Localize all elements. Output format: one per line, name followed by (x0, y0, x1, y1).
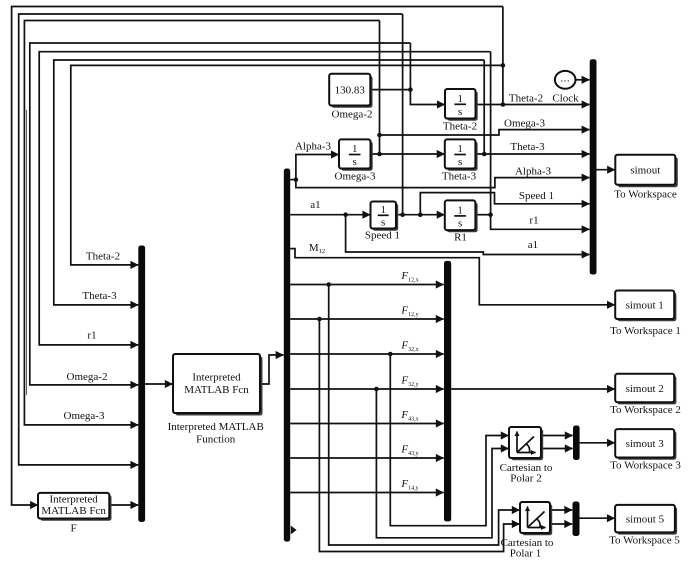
wire constant 130.83 output to junction (370, 89, 410, 91)
block simout 1 To Workspace 1 (617, 293, 676, 322)
junction F32y branch (374, 387, 379, 392)
svg-text:M12: M12 (309, 242, 325, 255)
block simout 5 To Workspace 5 (617, 507, 677, 534)
wire riser from Omega-3 output junction (379, 21, 381, 155)
svg-text:MATLAB Fcn: MATLAB Fcn (41, 505, 106, 517)
wire mux1 output to simout (597, 169, 616, 171)
svg-text:To Workspace 3: To Workspace 3 (610, 460, 681, 472)
svg-text:a1: a1 (310, 199, 320, 211)
junction Speed 1 output feedback (400, 212, 405, 217)
svg-text:To Workspace 1: To Workspace 1 (610, 325, 681, 337)
svg-text:Interpreted MATLAB: Interpreted MATLAB (168, 421, 264, 433)
integrator R1 (1/s) (447, 203, 478, 233)
clock (555, 71, 576, 89)
integrator Speed 1 (1/s) (373, 204, 399, 231)
wire riser from Speed 1 output junction (402, 14, 404, 215)
svg-text:Interpreted: Interpreted (192, 372, 241, 384)
wire feedback Omega-2 to left mux (30, 43, 411, 385)
block simout 2 To Workspace 2 (617, 376, 676, 404)
wire Interpreted MATLAB Fcn output to demux (260, 355, 284, 384)
svg-text:F14,y: F14,y (400, 478, 418, 492)
block Interpreted MATLAB Fcn (main) (176, 357, 263, 416)
svg-text:1: 1 (457, 93, 463, 105)
junction F12y branch (317, 317, 322, 322)
wire demux M12 output to simout 1 (290, 249, 615, 305)
svg-text:Polar 2: Polar 2 (510, 473, 541, 485)
junction F32x branch (388, 352, 393, 357)
junction Theta-2 feedback split (501, 63, 506, 68)
svg-text:Polar 1: Polar 1 (510, 548, 541, 560)
svg-text:F43,y: F43,y (400, 444, 418, 458)
svg-text:Theta-3: Theta-3 (510, 141, 545, 153)
svg-text:To Workspace 2: To Workspace 2 (610, 404, 681, 416)
integrator Omega-3 (1/s) (341, 142, 373, 171)
junction Omega-3 output (377, 152, 382, 157)
junction r1 output (488, 212, 493, 217)
mux3 (after Cartesian to Polar 2) (573, 426, 580, 461)
block simout 3 To Workspace 3 (617, 431, 676, 459)
svg-text:simout 2: simout 2 (626, 383, 664, 395)
svg-text:Theta-3: Theta-3 (82, 290, 117, 302)
junction Theta-3 output (482, 152, 487, 157)
wire riser from r1 output junction (490, 52, 492, 215)
wire left mux output to Interpreted MATLAB Fcn (145, 383, 173, 385)
wire scan ghost near Omega-3 feedback (26, 110, 28, 395)
wire feedback Theta-2 to left mux (71, 65, 503, 265)
svg-text:simout 3: simout 3 (626, 438, 665, 450)
junction F12x branch (326, 282, 331, 287)
wire F12y branch to Cartesian to Polar 1 input y (319, 319, 519, 552)
svg-text:130.83: 130.83 (335, 85, 366, 97)
svg-text:1: 1 (380, 204, 386, 216)
wire Omega-3 integrator output to Theta-3 integrator (371, 153, 445, 155)
block Cartesian to Polar 2 (511, 429, 543, 460)
svg-text:Omega-3: Omega-3 (335, 171, 376, 183)
svg-text:a1: a1 (528, 239, 538, 251)
junction a1 branch (343, 212, 348, 217)
svg-text:F: F (71, 523, 77, 535)
wire demux a1 output to Speed 1 integrator (290, 214, 370, 216)
svg-text:1: 1 (457, 143, 463, 155)
wire feedback Theta-2 to F block (outer loop) (12, 7, 503, 506)
svg-text:Clock: Clock (552, 93, 579, 105)
wire Theta-2 integrator output to mux1 (476, 104, 590, 106)
junction Omega-3 branch (377, 133, 382, 138)
wire Cartesian to Polar 1 output 1 to mux4 (550, 509, 572, 511)
svg-text:R1: R1 (454, 232, 467, 244)
wire clock to mux1 (576, 79, 590, 81)
wire Alpha-3 up into Omega-3 integrator (296, 155, 339, 180)
wire Speed 1 integrator output to R1 integrator (396, 214, 445, 216)
wire mux3 output to simout 3 (580, 442, 615, 444)
wire feedback r1 to left mux (39, 52, 490, 345)
svg-text:F32,x: F32,x (400, 340, 418, 354)
wire demux F32x output to mux2 (290, 353, 444, 355)
wire mux4 output to simout 5 (580, 517, 615, 519)
mux2 (F forces to workspace 2) (444, 261, 451, 522)
svg-text:Omega-2: Omega-2 (332, 109, 373, 121)
svg-text:Theta-2: Theta-2 (86, 251, 120, 263)
svg-text:Theta-2: Theta-2 (509, 93, 543, 105)
wire Cartesian to Polar 2 output 2 to mux3 (541, 448, 573, 450)
svg-text:simout 5: simout 5 (626, 513, 665, 525)
svg-text:Omega-3: Omega-3 (64, 410, 105, 422)
constant 130.83 (331, 76, 372, 108)
svg-text:r1: r1 (529, 215, 538, 227)
svg-text:s: s (381, 217, 385, 229)
wire Alpha-3 branch to mux1 (296, 178, 590, 188)
wire demux F14y output to mux2 (290, 492, 444, 494)
wire junction down into integrator Theta-2 (410, 90, 444, 105)
svg-text:F12,y: F12,y (400, 305, 418, 319)
wire Theta-3 integrator output to mux1 (475, 153, 589, 155)
integrator Theta-2 (1/s) (447, 91, 478, 121)
wire demux F43x output to mux2 (290, 423, 444, 425)
svg-text:To Workspace: To Workspace (614, 189, 677, 201)
wire F12x branch to Cartesian to Polar 1 input x (329, 285, 520, 546)
block simout To Workspace (618, 157, 678, 187)
wire riser from Omega-2 constant junction (409, 43, 411, 90)
integrator Theta-3 (1/s) (447, 142, 478, 171)
wire demux F43y output to mux2 (290, 457, 444, 459)
wire R1 integrator output to junction (475, 214, 490, 216)
svg-text:simout 1: simout 1 (626, 300, 664, 312)
wire mux2 output to simout 2 (451, 388, 615, 390)
svg-text:Theta-2: Theta-2 (443, 121, 477, 133)
svg-text:F43,x: F43,x (400, 409, 418, 423)
svg-text:s: s (353, 156, 357, 168)
mux1 right (to workspace) (590, 59, 597, 274)
junction Speed 1 output to mux1 (418, 212, 423, 217)
svg-text:Omega-3: Omega-3 (504, 118, 545, 130)
block Cartesian to Polar 1 (522, 504, 552, 535)
svg-text:F32,y: F32,y (400, 375, 418, 389)
svg-text:1: 1 (352, 143, 358, 155)
wire riser from Theta-3 output junction (483, 60, 485, 154)
wire Cartesian to Polar 1 output 2 to mux4 (550, 523, 572, 525)
wire feedback Theta-3 to left mux (54, 60, 484, 305)
svg-text:Omega-2: Omega-2 (67, 371, 108, 383)
svg-text:s: s (458, 156, 462, 168)
wire F32y branch to Cartesian to Polar 2 input y (376, 389, 508, 538)
svg-text:To Workspace 5: To Workspace 5 (609, 535, 680, 547)
svg-text:Function: Function (196, 434, 236, 446)
svg-text:Speed 1: Speed 1 (519, 190, 554, 202)
svg-text:simout: simout (630, 165, 660, 177)
svg-text:Alpha-3: Alpha-3 (515, 166, 552, 178)
wire demux Alpha-3 output stub (290, 179, 296, 181)
junction Theta-2 output (501, 102, 506, 107)
svg-text:MATLAB Fcn: MATLAB Fcn (184, 384, 249, 396)
svg-text:Interpreted: Interpreted (49, 494, 98, 506)
svg-text:...: ... (560, 73, 570, 85)
junction Alpha-3 demux output (294, 177, 299, 182)
wire riser from Theta-2 output junction (502, 7, 504, 105)
svg-text:Speed 1: Speed 1 (365, 230, 400, 242)
demux center (outputs Alpha-3,a1,M12,F...) (284, 169, 290, 542)
wire a1 branch to mux1 (346, 215, 590, 255)
svg-text:r1: r1 (87, 330, 96, 342)
wire feedback Omega-3 to left mux (24, 21, 379, 425)
wire demux F12x output to mux2 (290, 284, 444, 286)
wire Omega-3 branch to mux1 (380, 130, 590, 135)
svg-text:Theta-3: Theta-3 (442, 171, 477, 183)
wire Cartesian to Polar 2 output 1 to mux3 (541, 435, 573, 437)
wire r1 branch to mux1 (491, 215, 590, 230)
svg-text:Alpha-3: Alpha-3 (295, 141, 332, 153)
demux unconnected output arrow (291, 526, 297, 535)
wire demux F12y output to mux2 (290, 318, 444, 320)
block Interpreted MATLAB Fcn (F) (40, 495, 111, 521)
wire F32x branch to Cartesian to Polar 2 input x (390, 354, 508, 526)
wire F block output to left mux (109, 504, 138, 506)
mux4 (after Cartesian to Polar 1) (573, 502, 580, 537)
junction Omega-2 constant output (408, 87, 413, 92)
svg-text:F12,x: F12,x (400, 270, 418, 284)
mux left (7 inputs) (138, 246, 145, 523)
svg-text:s: s (458, 106, 462, 118)
svg-text:s: s (458, 218, 462, 230)
wire demux F32y output to mux2 (290, 388, 444, 390)
wire feedback Speed 1 to left mux input 6 (19, 14, 403, 465)
wire Speed 1 branch to mux1 (420, 193, 589, 215)
svg-text:1: 1 (457, 204, 463, 216)
